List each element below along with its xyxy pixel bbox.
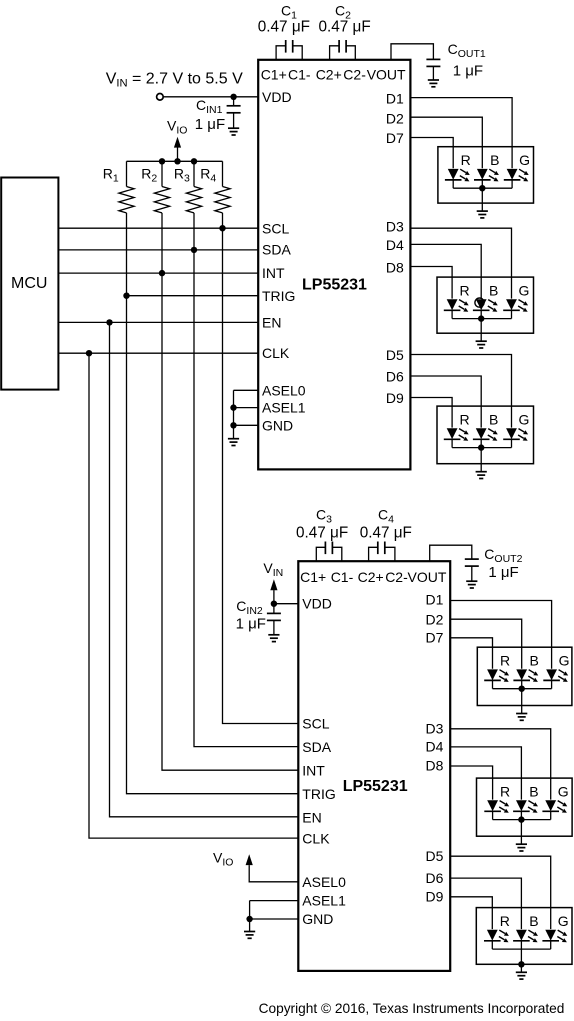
svg-text:D3: D3 [386,218,404,234]
wire CIN2 stem bottom [273,620,275,634]
svg-text:LP55231: LP55231 [302,276,367,293]
svg-text:B: B [489,411,498,427]
LED green (U2-3) [542,930,567,949]
svg-text:D5: D5 [386,347,404,363]
svg-text:D7: D7 [425,630,443,646]
capacitor CIN2 [267,613,281,620]
svg-text:TRIG: TRIG [262,288,295,304]
wire EN (MCU to U1) [58,321,258,323]
svg-text:Copyright © 2016, Texas Instru: Copyright © 2016, Texas Instruments Inco… [259,1001,565,1016]
ground (CIN2) [268,635,279,642]
svg-text:SCL: SCL [262,221,289,237]
wire D9 (U2) [450,897,492,929]
svg-text:INT: INT [302,763,325,779]
svg-text:R2: R2 [141,166,157,185]
capacitor C1 [286,40,293,53]
power flag VIO (U2) [246,854,253,865]
LED red (U1-3) [444,428,469,447]
wire VIO rail [127,160,223,162]
wire SDA (MCU to U1) [58,249,258,251]
LED group U2-1 box [477,647,572,705]
wire SCL (MCU to U1) [58,227,258,229]
svg-text:D4: D4 [425,739,443,755]
svg-text:VIO: VIO [167,118,187,137]
LED green (U2-2) [542,800,567,819]
ground (CIN1) [228,128,239,135]
svg-text:C2-: C2- [385,569,408,585]
wire cathode to ground (U1-1) [481,188,483,211]
wire TRIG (R1 to U1) [127,295,259,297]
svg-text:VDD: VDD [302,596,332,612]
svg-text:1 μF: 1 μF [453,63,483,80]
svg-text:LP55231: LP55231 [343,778,408,795]
LED green (U1-2) [503,299,528,318]
svg-text:C4: C4 [378,507,394,526]
wire SCL drop to U2 [223,228,299,723]
junction cathode (U1-3) [478,444,484,450]
svg-text:1 μF: 1 μF [488,564,518,581]
svg-text:GND: GND [302,911,333,927]
wire VIN flag to U2 VDD [273,590,275,604]
wire ASEL0 (U1) [234,389,259,391]
svg-text:GND: GND [262,417,293,433]
svg-text:G: G [519,152,530,168]
svg-text:B: B [489,282,498,298]
wire INT (MCU to U1) [58,272,258,274]
svg-text:D4: D4 [386,237,404,253]
junction rail/R2 [159,158,165,164]
svg-text:CLK: CLK [302,831,330,847]
svg-text:ASEL1: ASEL1 [262,400,306,416]
svg-text:CLK: CLK [262,345,290,361]
svg-text:SDA: SDA [262,242,291,258]
LED red (U2-1) [484,669,509,688]
wire ASEL1 (U2) [250,900,299,902]
resistor R2 [154,187,169,213]
svg-text:D7: D7 [386,130,404,146]
capacitor CIN1 [227,106,241,113]
wire VIN to U1 VDD [163,96,258,98]
svg-text:1 μF: 1 μF [236,616,266,633]
wire common cathode (U2-2) [493,819,551,821]
LED green (U1-1) [504,169,529,188]
wire ASEL0 (U2) [249,865,298,882]
LED red (U1-2) [444,299,469,318]
junction INT/R2 [159,270,165,276]
junction TRIG/R1 [123,293,129,299]
wire D8 (U2) [450,766,492,800]
wire cathode to ground (U2-3) [520,949,522,972]
wire CIN1 stem top [233,97,235,106]
svg-text:D9: D9 [425,889,443,905]
svg-text:VOUT: VOUT [408,569,447,585]
capacitor C4 wiring [369,547,378,561]
svg-text:COUT1: COUT1 [448,41,486,60]
svg-text:D2: D2 [386,110,404,126]
wire COUT1 to ground [432,66,434,79]
ground (U1-3) [476,472,487,479]
svg-text:C2+: C2+ [316,67,342,83]
capacitor C2 [339,40,346,53]
ground (U2-2) [516,844,527,851]
svg-text:G: G [519,282,530,298]
svg-text:R: R [461,152,471,168]
wire D3 (U2) [450,729,551,800]
capacitor COUT1 [426,59,440,66]
svg-text:C1+: C1+ [261,67,287,83]
svg-text:ASEL0: ASEL0 [262,382,306,398]
svg-text:COUT2: COUT2 [484,546,522,565]
svg-text:R1: R1 [103,166,119,185]
svg-text:G: G [559,653,570,669]
capacitor C2 wiring [330,46,340,60]
svg-text:C2+: C2+ [358,569,384,585]
LED group U2-3 box [476,908,572,965]
svg-text:D8: D8 [386,260,404,276]
svg-text:R: R [500,783,510,799]
LED blue (U2-1) [513,669,538,688]
svg-text:R: R [460,411,470,427]
IC U2 LP55231 body [298,561,450,971]
wire GND (U2) [250,918,299,920]
svg-text:R: R [500,653,510,669]
wire R1 to bus [126,213,128,296]
wire ASEL1 (U1) [234,407,259,409]
svg-text:TRIG: TRIG [302,786,335,802]
svg-text:B: B [529,783,538,799]
svg-text:D1: D1 [425,592,443,608]
wire R4 to bus [222,213,224,228]
svg-text:0.47 μF: 0.47 μF [360,525,412,542]
LED group U1-2 box [437,277,534,333]
svg-text:D2: D2 [425,611,443,627]
svg-text:VDD: VDD [262,89,292,105]
junction VDD/CIN1 [230,94,236,100]
svg-text:B: B [530,653,539,669]
wire D3 (U1) [410,228,511,298]
junction cathode (U1-1) [479,185,485,191]
ground (U2-3) [516,972,527,979]
svg-text:VIN = 2.7 V to 5.5 V: VIN = 2.7 V to 5.5 V [106,71,243,90]
capacitor C3 wiring [316,547,325,561]
wire cathode to ground (U2-1) [521,689,523,713]
LED green (U2-1) [543,669,568,688]
power flag VIO (U1 side) [174,137,181,148]
ground (U2 ASEL1/GND) [244,932,255,939]
wire D4 (U2) [450,747,521,800]
wire D9 (U1) [410,398,452,428]
junction SCL/R4 [219,225,225,231]
wire rail to R4 [222,161,224,186]
wire cathode to ground (U1-2) [480,319,482,341]
svg-text:SDA: SDA [302,739,331,755]
svg-text:CIN2: CIN2 [236,598,263,617]
svg-text:EN: EN [262,315,281,331]
junction ASEL1 (U1) [230,404,236,410]
wire R2 to bus [161,213,163,273]
LED red (U2-2) [484,800,509,819]
junction cathode (U2-2) [518,816,524,822]
ground (U1 ASEL/GND) [228,439,239,446]
wire TRIG drop to U2 [127,296,299,794]
svg-text:ASEL1: ASEL1 [302,893,346,909]
ground (COUT1) [428,80,439,87]
LED group U1-1 box [438,147,534,203]
junction cathode (U1-2) [478,315,484,321]
junction GND (U1) [230,422,236,428]
LED blue (U2-2) [513,800,538,819]
capacitor COUT2 [465,559,479,566]
svg-text:D6: D6 [425,870,443,886]
svg-text:VIO: VIO [213,850,233,869]
MCU block [1,178,58,390]
capacitor C1 wiring [276,46,286,60]
LED group U2-2 box [477,778,573,836]
capacitor C4 [378,542,385,555]
IC U1 LP55231 body [258,60,410,470]
wire D8 (U1) [410,267,452,299]
wire CLK drop to U2 [89,353,298,838]
wire D5 (U2) [450,856,551,929]
svg-text:G: G [558,783,569,799]
wire rail to R2 [161,161,163,186]
wire D7 (U1) [410,138,453,169]
svg-text:B: B [529,913,538,929]
svg-text:MCU: MCU [11,275,47,292]
svg-text:B: B [490,152,499,168]
wire D7 (U2) [450,638,492,669]
wire D1 (U1) [410,98,512,169]
LED group U1-3 box [437,406,534,464]
svg-text:R: R [500,913,510,929]
junction SDA/R3 [191,247,197,253]
wire COUT2 to ground [471,566,473,581]
power flag VIN (U2) [270,579,277,590]
wire CIN1 stem bottom [233,113,235,128]
svg-text:EN: EN [302,809,321,825]
ground (COUT2) [466,581,477,588]
wire D5 (U1) [410,355,511,428]
svg-text:D5: D5 [425,848,443,864]
svg-text:C1-: C1- [331,569,354,585]
wire CIN2 stem top [273,604,275,614]
svg-text:SCL: SCL [302,716,329,732]
svg-text:R: R [460,282,470,298]
svg-text:D1: D1 [386,91,404,107]
svg-text:C1+: C1+ [300,569,326,585]
wire GND (U1) [234,424,259,426]
wire D2 (U1) [410,117,482,168]
capacitor C3 [325,542,332,555]
stray circle artifact (U1-2 B anode) [475,298,484,307]
wire ASEL tie-down (U1) [233,390,235,438]
svg-text:G: G [558,913,569,929]
svg-text:VIN: VIN [263,560,283,579]
wire R3 to bus [193,213,195,250]
svg-text:C2-: C2- [343,67,366,83]
wire cathode to ground (U1-3) [480,448,482,472]
ground (U1-2) [476,341,487,348]
wire SDA drop to U2 [194,250,298,747]
terminal VIN (open circle) [157,94,164,101]
junction GND (U2) [246,916,252,922]
junction VDD/CIN2 [271,601,277,607]
LED blue (U1-2) [473,299,498,318]
wire VOUT to COUT1 [391,44,433,60]
ground (U2-1) [516,714,527,721]
wire EN drop to U2 [110,322,299,816]
wire common cathode (U1-1) [453,187,512,189]
svg-text:D6: D6 [386,369,404,385]
wire D6 (U1) [410,376,481,428]
wire VOUT to COUT2 [430,545,472,561]
svg-text:VOUT: VOUT [367,67,406,83]
wire D6 (U2) [450,878,521,929]
svg-text:D8: D8 [425,758,443,774]
svg-text:R3: R3 [174,166,190,185]
svg-text:CIN1: CIN1 [196,97,223,116]
svg-text:0.47 μF: 0.47 μF [258,19,310,36]
wire cathode to ground (U2-2) [520,820,522,844]
wire INT drop to U2 [162,273,298,770]
LED red (U1-1) [445,169,470,188]
svg-text:C3: C3 [316,507,332,526]
wire D4 (U1) [410,244,481,298]
svg-text:0.47 μF: 0.47 μF [319,19,371,36]
wire common cathode (U1-2) [452,318,511,320]
wire VIO stem [177,147,179,161]
resistor R4 [215,187,230,213]
junction rail/R3 [191,158,197,164]
svg-text:D9: D9 [386,390,404,406]
svg-text:R4: R4 [200,166,216,185]
junction EN [106,319,112,325]
LED blue (U2-3) [513,930,538,949]
junction cathode (U2-3) [518,961,524,967]
wire rail to R1 [126,161,128,186]
ground (U1-1) [477,211,488,218]
wire ASEL1 tie-down (U2) [249,901,251,932]
LED green (U1-3) [503,428,528,447]
wire D1 (U2) [450,601,551,669]
junction rail/VIO [174,158,180,164]
junction CLK [86,350,92,356]
svg-text:INT: INT [262,265,285,281]
svg-text:ASEL0: ASEL0 [302,874,346,890]
wire D2 (U2) [450,619,522,669]
resistor R1 [119,187,134,213]
wire common cathode (U1-3) [452,447,511,449]
svg-text:C1-: C1- [288,67,311,83]
svg-text:G: G [519,411,530,427]
svg-text:0.47 μF: 0.47 μF [296,525,348,542]
wire common cathode (U2-1) [493,688,552,690]
svg-text:1 μF: 1 μF [195,116,225,133]
LED red (U2-3) [484,930,509,949]
wire rail to R3 [193,161,195,186]
junction cathode (U2-1) [519,686,525,692]
wire common cathode (U2-3) [492,948,550,950]
wire CLK (MCU to U1) [58,352,258,354]
LED blue (U1-3) [473,428,498,447]
LED blue (U1-1) [474,169,499,188]
resistor R3 [186,187,201,213]
svg-text:D3: D3 [425,721,443,737]
